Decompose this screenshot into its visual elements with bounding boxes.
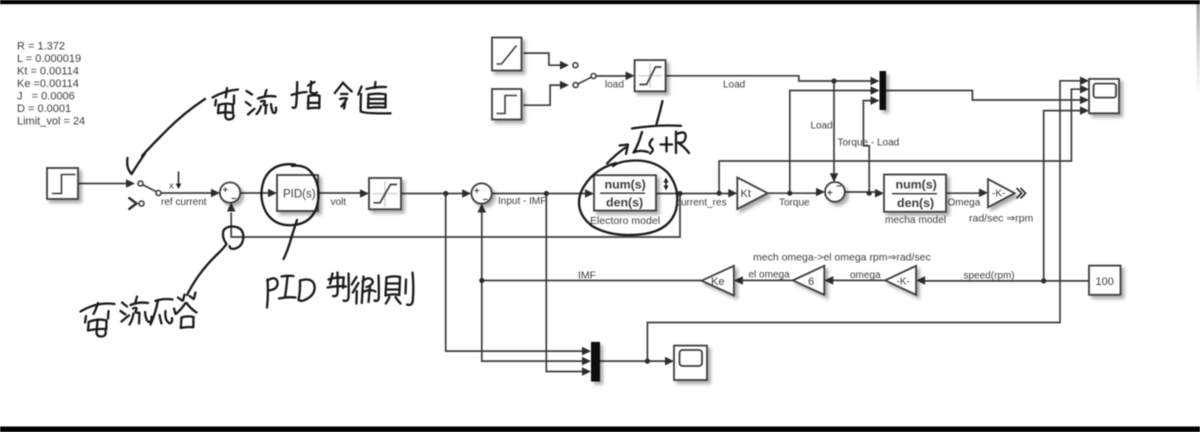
svg-text:IMF: IMF — [578, 270, 596, 282]
svg-text:Ke: Ke — [711, 276, 724, 288]
svg-text:den(s): den(s) — [897, 196, 934, 210]
svg-text:100: 100 — [1096, 276, 1114, 288]
svg-text:+: + — [827, 188, 833, 199]
svg-text:+: + — [223, 185, 229, 196]
svg-text:rad/sec ⇒rpm: rad/sec ⇒rpm — [969, 213, 1033, 225]
svg-text:Torque: Torque — [779, 198, 810, 209]
svg-text:el omega: el omega — [749, 270, 791, 281]
svg-text:6: 6 — [808, 276, 814, 288]
svg-text:Omega: Omega — [948, 198, 981, 209]
svg-text:mech omega->el omega rpm⇒rad/: mech omega->el omega rpm⇒rad/sec — [753, 252, 931, 264]
svg-text:Load: Load — [723, 80, 745, 91]
svg-text:Input - IMF: Input - IMF — [498, 196, 546, 207]
svg-text:−: − — [836, 181, 842, 192]
svg-text:speed(rpm): speed(rpm) — [964, 271, 1015, 282]
svg-text:Torque - Load: Torque - Load — [838, 138, 900, 149]
svg-text:J = 0.0006: J = 0.0006 — [17, 91, 75, 103]
svg-text:L = 0.000019: L = 0.000019 — [17, 53, 81, 65]
svg-text:Load: Load — [811, 121, 833, 132]
svg-text:load: load — [605, 80, 624, 91]
svg-text:mecha model: mecha model — [885, 215, 946, 226]
svg-text:ref current: ref current — [161, 197, 207, 208]
svg-text:−: − — [483, 195, 489, 206]
svg-text:omega: omega — [850, 270, 881, 281]
svg-text:PID(s): PID(s) — [283, 189, 316, 201]
svg-text:current_res: current_res — [676, 198, 727, 209]
svg-text:Kt: Kt — [741, 188, 751, 200]
svg-text:num(s): num(s) — [896, 178, 937, 192]
svg-text:D = 0.0001: D = 0.0001 — [17, 103, 71, 115]
svg-text:-K-: -K- — [992, 189, 1005, 200]
svg-text:Ke =0.00114: Ke =0.00114 — [17, 78, 79, 90]
svg-text:x: x — [169, 181, 174, 192]
svg-text:+: + — [474, 186, 480, 197]
svg-text:-K-: -K- — [897, 276, 910, 287]
svg-text:Electoro model: Electoro model — [590, 215, 660, 227]
svg-text:−: − — [231, 194, 237, 205]
svg-text:R = 1.372: R = 1.372 — [17, 41, 65, 53]
svg-text:den(s): den(s) — [606, 196, 643, 210]
svg-text:volt: volt — [331, 197, 347, 208]
svg-text:Kt = 0.00114: Kt = 0.00114 — [17, 66, 79, 78]
svg-text:num(s): num(s) — [605, 178, 646, 192]
svg-text:Limit_vol = 24: Limit_vol = 24 — [17, 116, 85, 128]
